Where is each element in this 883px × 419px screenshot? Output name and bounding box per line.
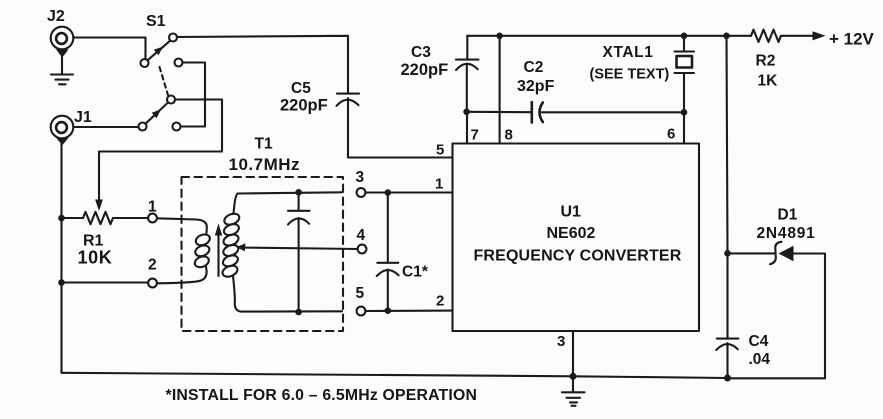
svg-text:7: 7 bbox=[471, 127, 479, 144]
ground (below J2) bbox=[51, 75, 73, 85]
node junction (rail / right branch) bbox=[723, 33, 730, 40]
node junction (T1 bottom / tank cap) bbox=[295, 309, 302, 316]
wire rail to R1 bbox=[62, 217, 84, 219]
wire J1 to S1 pole B bbox=[74, 126, 139, 128]
svg-text:C2: C2 bbox=[524, 59, 544, 76]
resistor R2 bbox=[751, 30, 781, 42]
connector J2 bbox=[51, 27, 74, 58]
svg-text:T1: T1 bbox=[255, 136, 273, 153]
svg-text:J1: J1 bbox=[74, 109, 92, 126]
wire U1 pin 3 bbox=[572, 331, 574, 376]
capacitor (T1 tank, internal) bbox=[288, 192, 310, 312]
svg-text:C5: C5 bbox=[291, 80, 311, 97]
wire C2 to pin 6 node bbox=[542, 111, 684, 113]
switch S1 section A arm bbox=[148, 41, 171, 61]
svg-text:+ 12V: + 12V bbox=[829, 30, 875, 49]
svg-text:2: 2 bbox=[436, 293, 444, 310]
svg-text:XTAL1: XTAL1 bbox=[603, 44, 654, 61]
connector J1 bbox=[51, 116, 74, 146]
node junction (left rail / R1 top) bbox=[58, 215, 65, 222]
svg-text:8: 8 bbox=[505, 127, 513, 144]
terminal 3 bbox=[357, 188, 366, 197]
wire C3 node to C2 bbox=[467, 111, 531, 113]
wire D1 right return bbox=[731, 254, 825, 379]
svg-text:C3: C3 bbox=[411, 44, 431, 61]
wire bottom ground rail bbox=[62, 373, 728, 378]
svg-text:3: 3 bbox=[557, 333, 565, 350]
switch S1 section A throw contact (right) bbox=[175, 59, 183, 67]
svg-text:1K: 1K bbox=[758, 73, 779, 90]
terminal 5 bbox=[357, 307, 366, 316]
switch S1 section B arm bbox=[146, 103, 169, 124]
wire T1 tap to terminal 4 bbox=[244, 248, 358, 249]
wire terminal 1 to T1 primary bbox=[157, 218, 207, 233]
wire S1 throw A right to throw B right bbox=[181, 63, 206, 127]
terminal 1 bbox=[148, 214, 157, 223]
svg-text:C4: C4 bbox=[749, 333, 769, 350]
transformer T1 primary winding bbox=[193, 232, 211, 269]
svg-text:220pF: 220pF bbox=[401, 61, 449, 79]
svg-text:.04: .04 bbox=[749, 351, 771, 368]
ground (pin 3) bbox=[562, 376, 585, 406]
switch S1 section A throw contact (top) bbox=[169, 34, 177, 42]
transformer T1 core / tuning arrow bbox=[215, 224, 222, 277]
wire pin 8 bbox=[499, 36, 501, 144]
node junction (left rail / lower wire) bbox=[58, 279, 65, 286]
crystal XTAL1 bbox=[675, 36, 695, 113]
svg-text:D1: D1 bbox=[778, 207, 798, 224]
wire right branch (rail down to C4) bbox=[727, 36, 728, 338]
svg-text:5: 5 bbox=[436, 142, 444, 159]
capacitor C1 bbox=[377, 193, 399, 311]
wire R1 to terminal 1 bbox=[113, 217, 148, 219]
svg-text:6: 6 bbox=[667, 126, 675, 143]
wire S1 section B out to R1 wiper bbox=[95, 100, 222, 212]
wire pin 6 bbox=[683, 112, 685, 143]
svg-text:10K: 10K bbox=[78, 248, 113, 268]
potentiometer R1 bbox=[83, 212, 113, 224]
wire T1 primary to terminal 2 bbox=[157, 267, 207, 283]
capacitor C4 bbox=[716, 339, 738, 378]
diode D1 bbox=[770, 242, 794, 264]
svg-text:32pF: 32pF bbox=[517, 78, 555, 95]
svg-text:2: 2 bbox=[148, 257, 157, 274]
wire terminal 5 to U1 pin 2 bbox=[366, 310, 453, 312]
svg-text:J2: J2 bbox=[47, 8, 65, 25]
node junction (rail / XTAL1) bbox=[681, 33, 688, 40]
wire J2 to S1 pole A bbox=[74, 38, 146, 59]
node junction (C4 / bottom rail) bbox=[724, 375, 731, 382]
capacitor C5 bbox=[337, 94, 360, 106]
switch S1 section B throw contact (top) bbox=[167, 96, 175, 104]
wire C5 to U1 pin 5 bbox=[348, 98, 452, 158]
node junction (rail / pin 8) bbox=[496, 33, 503, 40]
switch S1 section B throw contact (right) bbox=[173, 123, 181, 131]
svg-text:4: 4 bbox=[357, 227, 366, 244]
wire T1 secondary bottom bbox=[233, 276, 342, 312]
svg-text:C1*: C1* bbox=[402, 264, 429, 281]
wire terminal 3 to U1 pin 1 bbox=[366, 191, 453, 193]
transformer T1 shield box (dashed) bbox=[182, 177, 344, 331]
switch S1 gang link (dashed) bbox=[160, 67, 169, 95]
node junction (C3 / pin 7) bbox=[463, 109, 470, 116]
svg-text:*INSTALL FOR 6.0 – 6.5MHz OPER: *INSTALL FOR 6.0 – 6.5MHz OPERATION bbox=[166, 387, 478, 404]
svg-text:3: 3 bbox=[356, 169, 365, 186]
transformer T1 secondary winding bbox=[221, 212, 241, 279]
transformer T1 secondary tap arrow bbox=[236, 243, 245, 251]
svg-text:FREQUENCY CONVERTER: FREQUENCY CONVERTER bbox=[474, 248, 682, 265]
wire pin 7 bbox=[466, 112, 468, 144]
node junction (D1 / right branch) bbox=[724, 250, 731, 257]
node junction (pin 3 / bottom rail) bbox=[570, 373, 577, 380]
capacitor C2 bbox=[532, 102, 543, 123]
wire R2 to +12V arrow bbox=[781, 31, 826, 40]
svg-text:(SEE TEXT): (SEE TEXT) bbox=[590, 67, 670, 83]
wire +12V top rail bbox=[467, 35, 751, 37]
switch S1 section B pole contact bbox=[139, 123, 147, 131]
node junction (C1 top) bbox=[385, 189, 392, 196]
svg-text:10.7MHz: 10.7MHz bbox=[229, 155, 301, 174]
svg-text:220pF: 220pF bbox=[280, 97, 328, 115]
IC U1 box bbox=[453, 144, 700, 332]
wire left rail (J1 shell down) bbox=[60, 140, 62, 373]
node junction (T1 top / tank cap) bbox=[295, 189, 302, 196]
wire T1 secondary top bbox=[234, 192, 343, 214]
node junction (XTAL1 / pin 6) bbox=[681, 109, 688, 116]
wire S1 throw A top to C5 bbox=[177, 36, 348, 93]
node junction (C1 bottom) bbox=[385, 307, 392, 314]
svg-text:1: 1 bbox=[435, 176, 443, 193]
terminal 2 bbox=[148, 279, 157, 288]
wire D1 left bbox=[730, 252, 775, 254]
svg-text:U1: U1 bbox=[561, 204, 582, 221]
wire rail to terminal 2 bbox=[62, 281, 149, 283]
terminal 4 bbox=[358, 245, 367, 254]
svg-text:1: 1 bbox=[148, 199, 157, 216]
capacitor C3 bbox=[456, 36, 479, 112]
svg-text:R2: R2 bbox=[756, 53, 776, 70]
svg-text:5: 5 bbox=[356, 285, 365, 302]
switch S1 section A pole contact bbox=[141, 59, 149, 67]
svg-text:NE602: NE602 bbox=[547, 225, 596, 242]
svg-text:2N4891: 2N4891 bbox=[757, 225, 816, 242]
wire J2 shell to ground bbox=[61, 55, 63, 74]
svg-text:S1: S1 bbox=[146, 13, 166, 30]
